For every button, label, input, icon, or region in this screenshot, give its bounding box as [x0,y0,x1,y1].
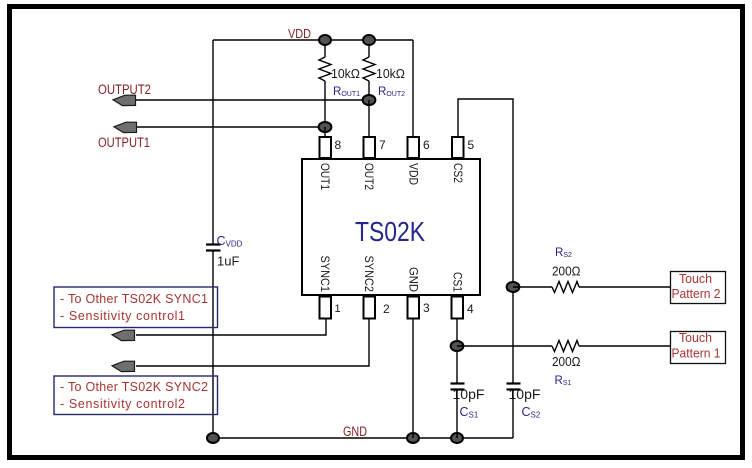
op-amp U1 TS02K body [302,159,480,295]
junction VDD-ROUT1 [319,35,331,45]
svg-text:10kΩ: 10kΩ [331,66,360,81]
svg-text:3: 3 [423,301,430,315]
svg-text:OUT1: OUT1 [318,163,330,190]
capacitor CS1 [451,384,465,390]
svg-text:CS2: CS2 [451,163,463,183]
pin 1 (SYNC1) [320,297,332,319]
svg-text:TS02K: TS02K [355,216,426,247]
svg-text:VDD: VDD [407,163,419,185]
wire CS1 drop [456,318,458,383]
wire CS1 to GND [456,390,458,438]
wire RS1 left lead [457,345,552,347]
svg-text:8: 8 [335,138,342,152]
junction GND CS1 [451,433,463,443]
svg-text:6: 6 [423,138,430,152]
wire SYNC1 [136,318,326,335]
arrow SYNC1 [112,330,135,340]
svg-text:7: 7 [379,138,386,152]
svg-text:Touch: Touch [679,272,712,286]
svg-text:2: 2 [383,302,390,316]
pin 8 (OUT1) [320,137,332,158]
resistor ROUT1 [319,40,331,127]
junction OUT2 node [363,95,376,105]
svg-text:- Sensitivity control1: - Sensitivity control1 [60,309,185,323]
svg-text:200Ω: 200Ω [552,354,581,369]
svg-text:- To Other TS02K SYNC2: - To Other TS02K SYNC2 [60,380,208,394]
svg-text:GND: GND [343,424,367,439]
wire OUTPUT1 [136,126,325,128]
arrow SYNC2 [112,361,135,371]
svg-text:OUTPUT1: OUTPUT1 [98,135,150,150]
svg-text:Pattern 2: Pattern 2 [672,287,721,301]
wire CVDD to GND [212,251,214,438]
svg-text:4: 4 [467,302,474,316]
pin 3 (GND) [408,297,420,319]
wire RS1 right lead [579,345,670,347]
junction GND-CVDD [207,433,219,443]
wire OUTPUT2 [136,99,369,101]
svg-text:Pattern 1: Pattern 1 [672,347,721,361]
svg-text:- Sensitivity control2: - Sensitivity control2 [60,397,185,411]
svg-text:200Ω: 200Ω [552,264,581,279]
svg-text:OUTPUT2: OUTPUT2 [98,82,151,97]
wire pin6 VDD drop [412,40,414,137]
wire OUT1 pin feed [324,127,326,137]
junction CS1-RS1 [451,341,464,351]
junction VDD-ROUT2 [363,35,375,45]
svg-text:GND: GND [407,267,419,292]
box Touch Pattern 1 [671,331,726,364]
svg-text:SYNC1: SYNC1 [318,256,330,293]
wire SYNC2 [136,318,369,366]
svg-text:10kΩ: 10kΩ [376,66,405,81]
svg-text:1uF: 1uF [217,254,239,269]
svg-text:VDD: VDD [288,26,311,41]
wire OUT2 pin feed [368,100,370,137]
wire VDD rail [213,39,413,41]
capacitor CVDD [206,245,221,251]
pin 5 (CS2) [452,137,464,158]
svg-text:- To Other TS02K SYNC1: - To Other TS02K SYNC1 [60,292,208,306]
svg-text:SYNC2: SYNC2 [362,256,374,293]
box Touch Pattern 2 [671,272,726,304]
resistor RS2 [552,282,579,293]
box SYNC2 note [54,376,218,415]
wire GND pin3 drop [412,318,414,438]
svg-text:Touch: Touch [679,331,712,345]
pin 6 (VDD) [408,137,420,158]
wire RS2 left lead [513,286,552,288]
junction OUT1 node [319,122,332,132]
svg-text:1: 1 [335,303,341,315]
resistor RS1 [552,341,579,352]
pin 4 (CS1) [452,297,464,319]
arrow OUTPUT2 [113,95,136,105]
resistor ROUT2 [363,40,375,100]
capacitor CS2 [507,384,521,390]
svg-text:OUT2: OUT2 [362,163,374,190]
junction CS2-RS2 [507,282,520,292]
wire CS2 to GND [512,390,514,438]
wire CS2 run (pin5 up and over) [458,99,513,383]
wire GND rail [213,437,513,439]
svg-text:5: 5 [468,138,475,152]
box SYNC1 note [54,287,218,328]
junction GND pin3 [407,433,419,443]
pin 2 (SYNC2) [364,297,376,319]
pin 7 (OUT2) [364,137,376,158]
wire RS2 right lead [579,286,670,288]
arrow OUTPUT1 [114,122,137,132]
wire CVDD drop [212,40,214,245]
svg-text:CS1: CS1 [451,272,463,292]
